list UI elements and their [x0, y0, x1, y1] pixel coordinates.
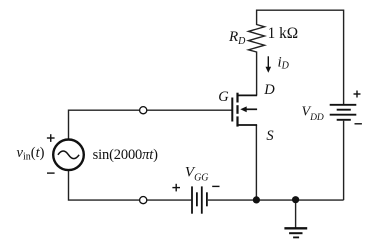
svg-text:vin(t): vin(t) [17, 145, 45, 163]
svg-text:D: D [263, 82, 275, 98]
svg-text:VDD: VDD [302, 105, 324, 123]
svg-text:S: S [266, 128, 274, 144]
svg-text:RD: RD [228, 29, 246, 47]
svg-text:VGG: VGG [185, 164, 209, 183]
svg-text:sin(2000πt): sin(2000πt) [93, 147, 159, 163]
svg-text:iD: iD [278, 54, 290, 71]
svg-text:1 kΩ: 1 kΩ [268, 25, 299, 42]
svg-text:G: G [218, 89, 229, 105]
